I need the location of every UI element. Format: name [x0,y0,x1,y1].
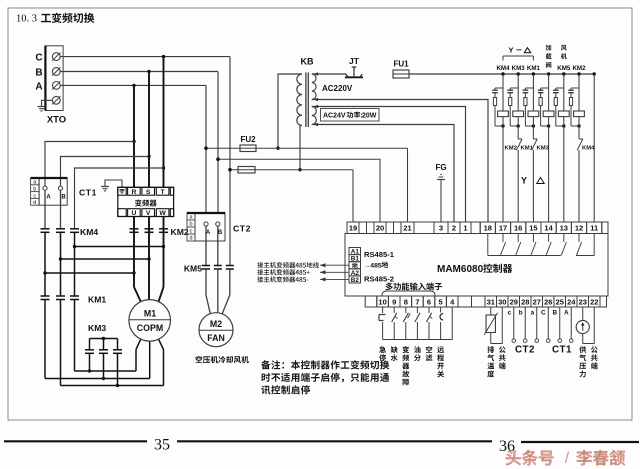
svg-text:CT1: CT1 [552,345,572,356]
label KM4 coil column [496,65,510,72]
svg-text:A: A [46,195,51,201]
contactor KM4 main contacts [41,229,80,233]
label AC220V [322,84,353,93]
phase label B [35,68,42,79]
wire KM1-3 to rail [74,300,76,372]
label KM5 coil column [557,65,571,72]
wire CT1 sense A [564,307,573,342]
wire phase A horizontal [60,84,206,87]
wire coil feed rail [409,72,596,75]
svg-text:KM1: KM1 [521,145,534,151]
svg-text:5: 5 [439,298,443,307]
label KB [301,57,314,67]
terminal block XTO [45,46,63,111]
switch remote switch input 5 [440,307,443,340]
label KM1 [88,295,106,305]
page number 35 [154,437,170,454]
wire KM5 to fan centre [217,269,219,313]
wire CT2 sense b [519,307,527,342]
svg-text:CT1: CT1 [79,188,97,198]
svg-text:V: V [146,210,151,217]
label interlock KM4 [582,145,595,151]
phase label C [35,53,42,64]
wire KM3 star bus [90,337,118,340]
label 风机 [561,45,567,59]
svg-text:B: B [61,195,66,201]
svg-text:KM3: KM3 [88,323,106,333]
coil circuit KM5 [553,74,569,222]
RS485 terminal block [349,248,361,285]
pressure sensor 供气压力 [576,307,594,344]
switch inverter fault input 8 [403,307,410,340]
svg-text:C: C [35,53,42,64]
wire motor M1 bottom centre [149,341,151,378]
svg-text:27: 27 [533,298,541,307]
current transformer CT2 [187,213,225,242]
label 油分 [414,346,421,361]
wire sense B to terminal 20 [216,158,380,222]
svg-text:XTO: XTO [47,115,66,126]
internal relay contacts 18-13 [488,234,567,256]
svg-text:17: 17 [499,224,507,233]
wire sense C to terminal 19 [352,170,354,222]
svg-text:b: b [33,187,36,193]
wire bypass link to U [45,272,134,274]
ground at XTO [38,100,53,111]
label KM2 coil column [572,65,586,72]
switch water shortage input 9 [392,307,398,340]
svg-text:KB: KB [301,57,314,67]
label MAM6080控制器 [437,264,512,275]
svg-text:KM1: KM1 [527,65,541,72]
title 10.3 工变频切换 [16,13,94,25]
svg-text:RS485-1: RS485-1 [364,250,395,259]
wire CT1 sense B [553,307,562,342]
label RS485-2 [364,275,394,284]
label FU1 [393,60,409,69]
ground at VFD input [101,180,122,191]
svg-text:18: 18 [484,224,492,233]
svg-text:KM3: KM3 [537,145,550,151]
phase label A [35,82,42,93]
label delta [537,178,544,184]
svg-text:c: c [508,309,512,316]
switch oil separator input 7 [415,307,420,340]
svg-text:1: 1 [463,224,467,233]
label FU2 [240,135,256,144]
wire VFD U to motor [132,217,140,302]
coil circuit KM4 [492,74,508,222]
footer rule right [521,441,639,443]
svg-text:15: 15 [529,224,537,233]
svg-text:W: W [159,210,166,217]
wire CT2 A down [205,226,207,265]
svg-text:11: 11 [590,224,598,233]
svg-text:c: c [33,193,36,199]
svg-text:7: 7 [415,298,419,307]
label 公共端 30 [499,346,506,369]
ground FG [435,163,446,222]
annotation 接主机变频器485- [257,276,349,282]
wire CT2 sense a [531,307,539,342]
label JT [349,56,360,66]
label 排气温度 [487,346,494,377]
wire common column to terminal 11 [593,74,595,222]
label CT2 sense [515,345,535,356]
svg-text:19: 19 [349,224,357,233]
svg-text:23: 23 [579,298,587,307]
svg-text:/: / [565,450,570,467]
svg-text:FU1: FU1 [393,60,409,69]
controller MAM6080 body [345,234,608,297]
svg-text:KM2: KM2 [505,145,518,151]
svg-text:26: 26 [544,298,552,307]
wire heavy drop B to VFD S [147,72,150,188]
label interlock KM2 [505,145,518,151]
svg-text:FAN: FAN [207,333,225,343]
svg-text:12: 12 [575,224,583,233]
wire CT2 sense c [508,307,516,342]
wire KM1-1 to rail [44,300,46,379]
svg-text:U: U [131,210,136,217]
wire bypass link to W [75,246,164,248]
label 缺水 [391,346,398,361]
svg-text:A: A [564,309,569,316]
page number 36 [499,438,515,455]
terminal strip top row [347,222,608,234]
wire AC220V return to terminal 18 [312,98,488,222]
watermark 头条号 李春颔 [506,450,625,467]
svg-text:10: 10 [378,298,386,307]
svg-text:20: 20 [376,224,384,233]
annotation 接主机变频器485+ [257,269,349,275]
wire bypass tap S to CT1 B [61,157,150,187]
label AC24V 功率 20W [321,109,380,122]
label interlock KM1 [521,145,534,151]
transformer KB [297,73,316,128]
bracket multifunction terminals [382,291,435,296]
wire bypass link to V [61,258,150,260]
switch JT [345,67,363,77]
label 公共端 22 [591,346,598,369]
label KM1 coil column [527,65,541,72]
wire rail 3 [61,384,164,387]
label KM3 [88,323,106,333]
svg-text:KM4: KM4 [496,65,510,72]
label 远程开关 [437,347,444,378]
svg-text:30: 30 [498,298,506,307]
svg-text:21: 21 [403,224,411,233]
wire rail 1 [75,369,137,372]
svg-text:JT: JT [349,56,360,66]
wire bypass tap T to KM4 [75,168,164,229]
label RS485-1 [364,250,395,259]
svg-text:MAM6080: MAM6080 [437,264,484,275]
wire transformer primary bottom lead [298,126,302,172]
svg-text:16: 16 [514,224,522,233]
svg-text:20W: 20W [362,113,377,120]
switch air filter input 6 [427,307,433,340]
svg-text:COPM: COPM [137,323,163,333]
svg-text:10. 3: 10. 3 [16,14,37,25]
annotation 接主机变频器485地线 [257,262,349,268]
label 多功能输入端子 [385,283,442,291]
svg-text:6: 6 [427,298,431,307]
svg-text:c: c [190,229,193,235]
internal relay contact 12-11 [576,234,594,256]
svg-text:B: B [35,68,42,79]
coil circuit 加载阀 [538,74,554,222]
wire VFD V to motor [147,217,150,301]
svg-text:CT2: CT2 [233,224,251,234]
svg-text:B: B [218,230,223,236]
wire drop C to KM5 [228,57,231,266]
wire phase C horizontal [60,55,230,58]
svg-text:KM5: KM5 [557,65,571,72]
svg-text:KM4: KM4 [582,145,595,151]
svg-text:35: 35 [154,437,170,454]
contactor KM5 main contacts [202,266,234,270]
svg-text:B: B [553,309,558,316]
wire KM5 to fan left [206,269,210,314]
label CT1 sense [552,345,572,356]
current transformer CT1 [31,178,68,206]
wire common input 4 [383,307,453,340]
label 485地 [364,262,389,270]
svg-text:M2: M2 [210,319,222,329]
wire CT1 B to KM4 [60,190,62,229]
wire AC220V hot lead [312,72,346,75]
svg-text:14: 14 [544,224,553,233]
svg-text:3: 3 [439,224,443,233]
wire heavy drop C to VFD T [162,57,165,187]
svg-text:22: 22 [590,298,598,307]
label CT2 [233,224,251,234]
fuse FU2 [204,145,407,152]
svg-text:25: 25 [556,298,564,307]
wire drop A to CT2 [204,85,207,213]
switch emergency stop input 10 [379,307,386,340]
svg-text:d: d [33,200,36,206]
contactor KM3 main contacts [85,339,122,386]
wire VFD W to motor [159,217,166,302]
wire KM4-1 down [43,232,46,296]
svg-text:a: a [531,309,535,316]
svg-text:24: 24 [567,298,576,307]
wire phase B horizontal [60,70,218,73]
label Y [521,176,527,186]
svg-text:AC24V: AC24V [323,113,346,120]
svg-text:A: A [35,82,42,93]
label CT1 [79,188,97,198]
wire KM4-3 down [73,232,76,296]
label 加载阀 [546,45,552,68]
svg-text:M1: M1 [144,309,156,319]
contactor KM2 main contacts [130,229,169,233]
svg-text:KM1: KM1 [88,295,106,305]
svg-text:FU2: FU2 [240,135,256,144]
label KM4 [80,227,98,237]
svg-text:29: 29 [510,298,518,307]
wire KM1-2 to rail [60,300,62,386]
svg-text:KM2: KM2 [171,227,189,237]
svg-text:B2: B2 [351,277,360,284]
svg-text:d: d [189,236,192,242]
label 变频器故障 [402,346,409,385]
label KM2 [171,227,189,237]
wire sense A to terminal 21 [407,148,409,222]
svg-text:9: 9 [392,298,396,307]
label KM3 coil column [512,65,526,72]
svg-text:RS485-2: RS485-2 [364,275,394,284]
note 备注 [261,360,389,394]
footer rule middle [177,440,492,442]
wire AC24V lead to terminal 1 [312,105,466,222]
wire bypass tap R to CT1 A [45,142,134,187]
terminal strip bottom row [365,296,606,307]
svg-text:S: S [146,189,151,196]
footer rule left [4,440,147,442]
wire KM5 to fan right [222,269,230,314]
svg-text:KM5: KM5 [184,264,202,274]
svg-text:Y: Y [509,46,514,55]
contactor KM1 main contacts [41,296,80,300]
svg-text:Y: Y [521,176,527,186]
svg-text:AC220V: AC220V [322,84,353,93]
svg-text:28: 28 [521,298,529,307]
coil circuit KM1 [523,74,539,222]
svg-text:→485: →485 [364,262,382,269]
svg-text:C: C [541,309,546,316]
coil circuit KM3 [507,74,523,222]
svg-text:KM2: KM2 [572,65,586,72]
temperature sensor 排气温度 [484,307,502,344]
svg-text:KM4: KM4 [80,227,98,237]
motor M1 COPM [129,300,171,342]
svg-text:2: 2 [452,224,456,233]
svg-text:31: 31 [487,298,495,307]
label XTO [47,115,66,126]
svg-text:KM3: KM3 [512,65,526,72]
svg-text:CT2: CT2 [515,345,535,356]
wire motor M1 bottom left [136,339,141,371]
wire drop B to CT2 [216,72,219,214]
coil circuit KM2 [568,74,584,222]
svg-text:b: b [519,309,523,316]
wire heavy drop A to VFD R [132,85,135,187]
label 供气压力 [579,346,586,377]
label 急停 [379,346,386,361]
svg-text:FG: FG [435,163,446,172]
wire KM4-2 down [59,232,62,296]
wire CT1 A to KM4 [44,190,46,229]
svg-text:R: R [131,189,136,196]
label 空压机冷却风机 [196,356,249,363]
svg-text:b: b [189,222,192,228]
label Y-delta bracket [503,46,533,61]
svg-text:8: 8 [404,298,408,307]
wire AC24V lead to terminal 2 [312,123,454,222]
fuse FU1 [393,70,409,78]
motor M2 FAN [199,313,233,347]
label 空滤 [426,346,433,361]
label interlock KM3 [537,145,550,151]
wire CT2 B down [217,226,219,265]
wire rail 2 [45,377,150,380]
wire transformer primary top lead [276,74,302,150]
label KM5 [184,264,202,274]
fuse FU2b [228,167,353,174]
svg-text:13: 13 [560,224,568,233]
wire motor M1 bottom right [159,339,164,385]
inverter U1 变频器 [118,187,174,217]
wire CT1 sense C [541,307,550,342]
